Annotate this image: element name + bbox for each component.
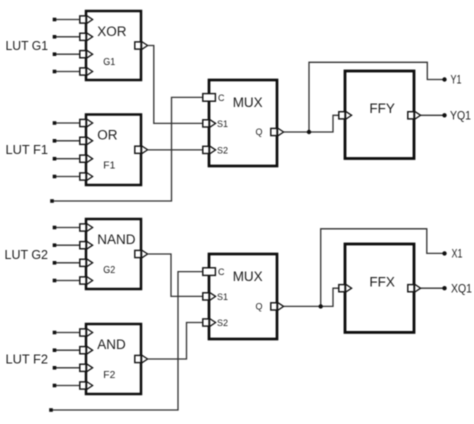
svg-text:X1: X1 xyxy=(452,247,463,261)
svg-text:LUT F1: LUT F1 xyxy=(6,143,49,157)
svg-text:OR: OR xyxy=(97,127,118,142)
svg-text:S2: S2 xyxy=(217,145,228,155)
svg-text:FFY: FFY xyxy=(369,101,395,116)
svg-text:Q: Q xyxy=(255,302,262,312)
svg-text:MUX: MUX xyxy=(233,95,263,110)
svg-text:MUX: MUX xyxy=(233,269,263,284)
svg-text:G2: G2 xyxy=(103,264,115,276)
svg-text:LUT G1: LUT G1 xyxy=(6,39,49,53)
svg-text:F2: F2 xyxy=(103,369,115,381)
svg-text:F1: F1 xyxy=(103,159,115,171)
svg-text:Q: Q xyxy=(255,127,262,137)
svg-text:LUT F2: LUT F2 xyxy=(6,352,49,366)
svg-text:LUT G2: LUT G2 xyxy=(5,248,49,262)
svg-text:S1: S1 xyxy=(217,292,228,302)
svg-text:C: C xyxy=(218,267,225,277)
svg-text:S2: S2 xyxy=(217,318,228,328)
svg-text:XQ1: XQ1 xyxy=(451,282,472,296)
svg-text:S1: S1 xyxy=(217,119,228,129)
svg-text:YQ1: YQ1 xyxy=(450,109,471,123)
svg-text:Y1: Y1 xyxy=(451,73,462,87)
svg-text:FFX: FFX xyxy=(369,275,395,290)
svg-text:NAND: NAND xyxy=(97,232,136,247)
svg-text:AND: AND xyxy=(97,337,126,352)
svg-text:XOR: XOR xyxy=(97,24,127,39)
svg-text:C: C xyxy=(218,93,225,103)
svg-text:G1: G1 xyxy=(103,56,115,68)
